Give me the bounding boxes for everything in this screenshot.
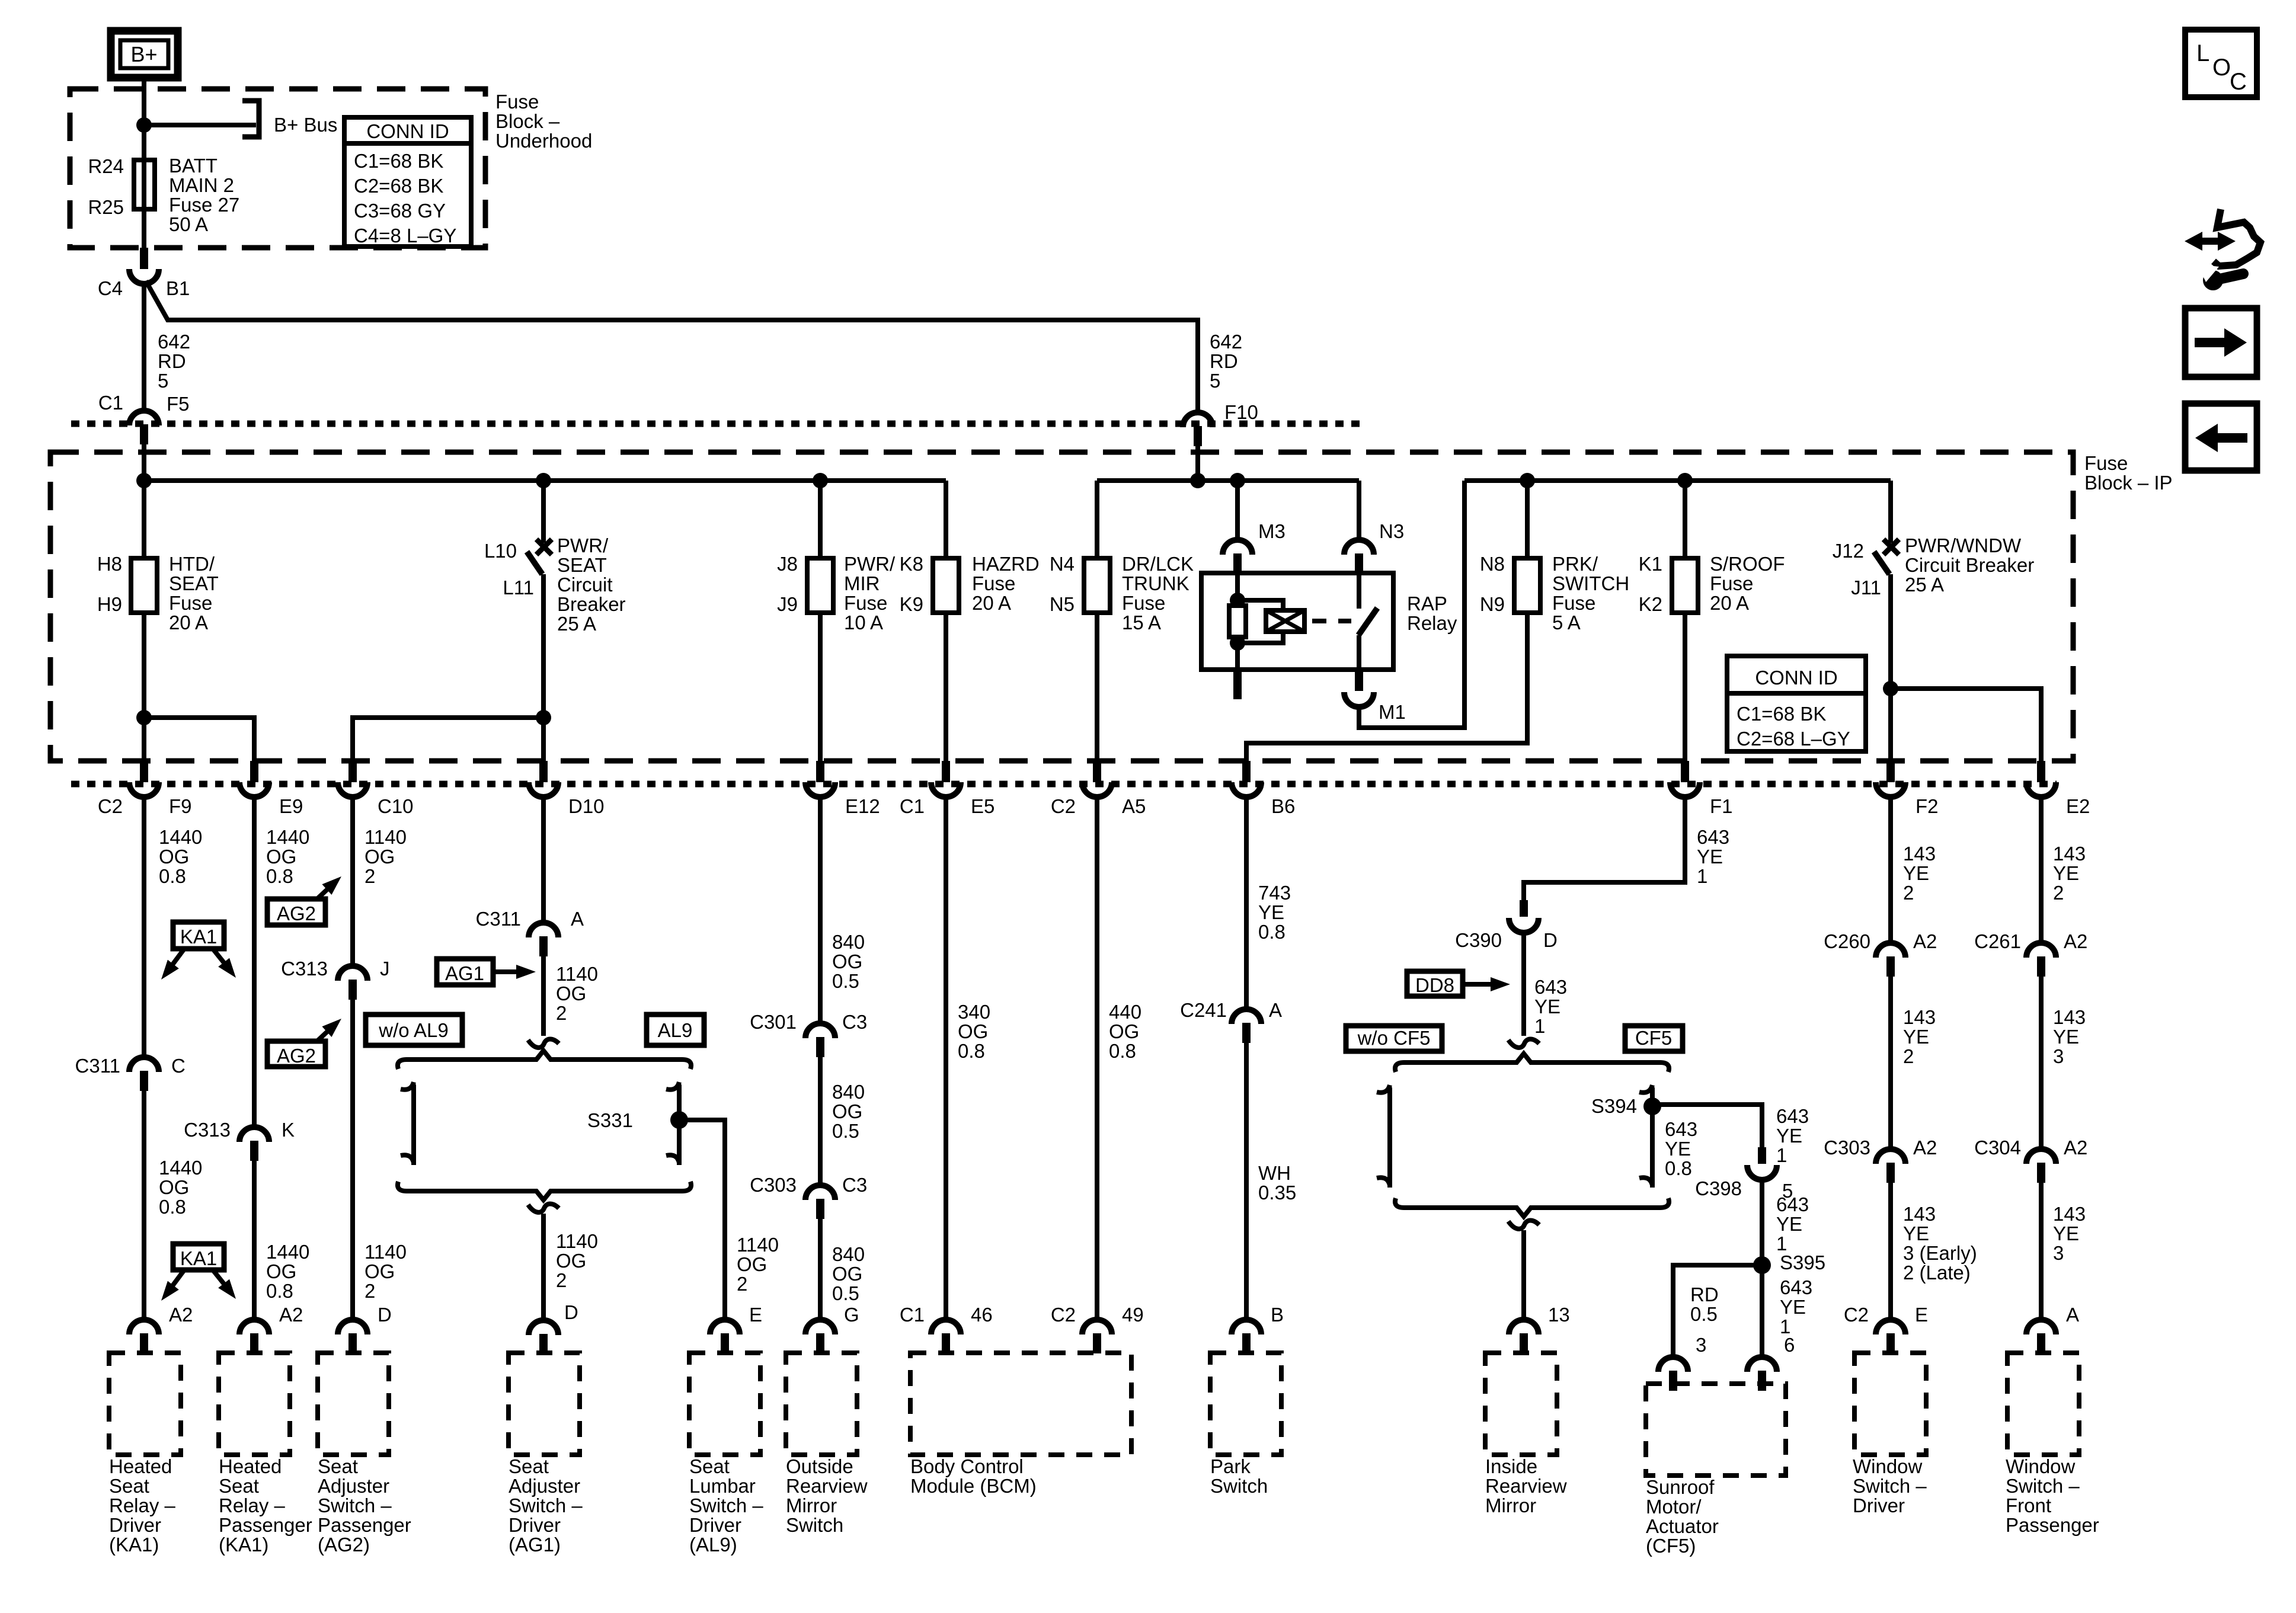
connector C398 inline — [1758, 1147, 1766, 1164]
wire 642 RD 5 branch to F10 — [146, 281, 1198, 412]
svg-text:2: 2 — [1903, 1045, 1914, 1067]
svg-text:643: 643 — [1665, 1118, 1697, 1140]
svg-text:5 A: 5 A — [1552, 612, 1581, 633]
svg-text:Lumbar: Lumbar — [689, 1475, 756, 1497]
wire N4 drop — [1095, 481, 1099, 558]
wire 643 YE 1 to option split — [1521, 934, 1526, 1036]
wire 840 OG 0.5 middle — [818, 1057, 823, 1185]
option branch w/o CF5 — [1377, 1085, 1390, 1093]
wire 1440 OG 0.8 heated seat passenger — [252, 797, 257, 1127]
svg-text:0.8: 0.8 — [159, 1196, 186, 1218]
svg-text:OG: OG — [159, 846, 189, 868]
power symbol B+ — [111, 31, 178, 78]
RAP relay box — [1201, 573, 1393, 670]
svg-text:643: 643 — [1534, 976, 1567, 998]
node bus N8 — [1520, 473, 1535, 488]
svg-text:YE: YE — [1534, 996, 1560, 1017]
wire 1440 OG 0.8 heated seat driver — [142, 797, 146, 1057]
option tag DD8 with arrow — [1407, 971, 1463, 996]
svg-text:Adjuster: Adjuster — [509, 1475, 580, 1497]
relay coil winding symbol — [1237, 600, 1283, 610]
svg-text:143: 143 — [1903, 1203, 1936, 1225]
wire K2 to exit F1 — [1683, 613, 1687, 761]
connector N3 relay switch input — [1344, 540, 1374, 555]
connector exit C10 — [348, 761, 357, 782]
connector C390/D inline — [1520, 900, 1528, 917]
svg-text:C313: C313 — [281, 958, 328, 980]
svg-text:643: 643 — [1780, 1276, 1812, 1298]
svg-text:A2: A2 — [169, 1304, 193, 1326]
svg-text:OG: OG — [364, 846, 395, 868]
wire 440 OG 0.8 to BCM 49 — [1095, 797, 1099, 1320]
svg-text:OG: OG — [266, 846, 296, 868]
wire N3 drop — [1357, 481, 1361, 540]
svg-text:Driver: Driver — [689, 1514, 741, 1536]
svg-text:3: 3 — [1696, 1334, 1706, 1356]
svg-text:OG: OG — [266, 1260, 296, 1282]
svg-text:2: 2 — [1903, 882, 1914, 904]
svg-text:1440: 1440 — [159, 1157, 202, 1179]
svg-text:MAIN 2: MAIN 2 — [169, 174, 234, 196]
bus segment middle — [1097, 478, 1359, 483]
svg-text:C261: C261 — [1974, 930, 2021, 952]
component box inside rearview mirror — [1485, 1353, 1557, 1455]
svg-text:C1=68 BK: C1=68 BK — [1737, 703, 1826, 725]
svg-text:B6: B6 — [1271, 795, 1295, 817]
wire 643 YE 1 to sunroof 6 — [1760, 1265, 1764, 1357]
svg-text:Front: Front — [2006, 1494, 2051, 1516]
connector C313/J inline — [338, 966, 367, 981]
connector E seat lumbar switch — [710, 1320, 740, 1334]
svg-text:840: 840 — [832, 1243, 865, 1265]
svg-text:C311: C311 — [476, 908, 521, 930]
svg-text:A: A — [571, 908, 584, 930]
wire 840 OG 0.5 upper — [818, 797, 823, 1023]
fuse J8/J9 PWR/MIR 10A — [807, 558, 833, 613]
svg-text:Heated: Heated — [109, 1455, 172, 1477]
connector M3 relay coil — [1223, 540, 1252, 555]
svg-text:Block – IP: Block – IP — [2084, 472, 2173, 494]
svg-text:YE: YE — [1776, 1125, 1802, 1147]
svg-text:D: D — [378, 1304, 392, 1326]
svg-text:R24: R24 — [88, 155, 124, 177]
svg-text:1440: 1440 — [266, 1241, 309, 1263]
wire S394 to C398 — [1652, 1105, 1762, 1147]
svg-text:F10: F10 — [1224, 401, 1258, 423]
wire S331 to seat lumbar switch — [679, 1120, 725, 1320]
svg-text:F5: F5 — [167, 393, 190, 415]
svg-text:13: 13 — [1548, 1304, 1570, 1326]
svg-text:E2: E2 — [2066, 795, 2090, 817]
svg-text:C: C — [171, 1055, 186, 1077]
connector E window switch driver — [1876, 1320, 1905, 1334]
option tag AG1 with arrow — [437, 959, 493, 985]
svg-text:643: 643 — [1697, 826, 1729, 848]
svg-text:Mirror: Mirror — [1485, 1494, 1536, 1516]
wire 143 YE 3 window passenger middle — [2039, 977, 2044, 1149]
connector exit F9 — [140, 761, 148, 782]
fuse N4/N5 DR/LCK TRUNK 15A — [1084, 558, 1110, 613]
fuse H8/H9 HTD/SEAT 20A — [131, 558, 157, 613]
connector 3 sunroof motor — [1658, 1357, 1688, 1372]
svg-text:E: E — [1915, 1304, 1928, 1326]
svg-text:Block –: Block – — [495, 110, 560, 132]
svg-text:G: G — [844, 1304, 859, 1326]
svg-text:Switch –: Switch – — [1853, 1475, 1927, 1497]
svg-text:YE: YE — [1780, 1296, 1806, 1318]
component box seat adjuster switch passenger — [318, 1353, 389, 1455]
svg-text:Passenger: Passenger — [318, 1514, 411, 1536]
svg-text:143: 143 — [2053, 843, 2086, 865]
connector C313/K inline — [239, 1127, 269, 1142]
svg-text:2 (Late): 2 (Late) — [1903, 1262, 1971, 1284]
svg-text:1: 1 — [1534, 1015, 1545, 1037]
svg-text:Seat: Seat — [689, 1455, 730, 1477]
connector row C1 top dotted line — [71, 421, 1363, 427]
svg-text:143: 143 — [2053, 1203, 2086, 1225]
wire RD 0.5 to sunroof 3 — [1673, 1265, 1762, 1357]
svg-text:Underhood: Underhood — [495, 130, 592, 152]
component box body control module — [910, 1353, 1131, 1455]
svg-text:RD: RD — [1690, 1284, 1719, 1305]
wire 143 YE 2 window passenger upper — [2039, 797, 2044, 943]
svg-text:RAP: RAP — [1407, 593, 1447, 615]
connector exit E2 — [2037, 761, 2045, 782]
svg-text:S395: S395 — [1780, 1252, 1825, 1273]
svg-text:3: 3 — [2053, 1242, 2064, 1264]
wire L11 to exits C10/D10 — [541, 574, 546, 761]
svg-text:A2: A2 — [2064, 1137, 2087, 1158]
svg-text:5: 5 — [158, 370, 168, 392]
svg-text:SWITCH: SWITCH — [1552, 572, 1629, 594]
connector C303/C3 inline — [805, 1185, 835, 1200]
node bus K1 — [1677, 473, 1693, 488]
svg-text:OG: OG — [1109, 1020, 1139, 1042]
wire 1140 OG 2 seat adjuster driver upper — [541, 797, 546, 923]
svg-text:0.8: 0.8 — [958, 1040, 985, 1062]
fuse K1/K2 S/ROOF 20A — [1672, 558, 1698, 613]
component box sunroof motor actuator — [1646, 1384, 1786, 1476]
option tag KA1 lower with arrows — [173, 1244, 224, 1270]
svg-text:C398: C398 — [1695, 1177, 1742, 1199]
connector 13 inside rearview mirror — [1509, 1320, 1539, 1334]
svg-text:O: O — [2212, 55, 2231, 81]
B+ bus bar symbol — [242, 101, 259, 137]
wire 143 YE 3 window passenger lower — [2039, 1183, 2044, 1320]
svg-text:CONN ID: CONN ID — [366, 120, 449, 142]
svg-text:143: 143 — [2053, 1006, 2086, 1028]
svg-text:C2: C2 — [1051, 1304, 1076, 1326]
wire J9 to exit E12 — [818, 613, 823, 761]
wire K1 drop — [1683, 481, 1687, 558]
connector A2 heated seat relay passenger — [239, 1320, 269, 1334]
svg-text:143: 143 — [1903, 1006, 1936, 1028]
svg-text:0.5: 0.5 — [1690, 1303, 1718, 1325]
svg-text:YE: YE — [1665, 1138, 1691, 1160]
svg-text:Seat: Seat — [509, 1455, 549, 1477]
wire 143 YE window driver lower — [1888, 1183, 1893, 1320]
svg-text:15 A: 15 A — [1122, 612, 1161, 633]
svg-text:C311: C311 — [75, 1055, 120, 1077]
svg-text:Fuse: Fuse — [1710, 572, 1753, 594]
svg-text:25 A: 25 A — [1905, 574, 1944, 596]
wire 1440 OG 0.8 lower passenger — [252, 1161, 257, 1320]
svg-text:SEAT: SEAT — [169, 572, 219, 594]
wire to inside rearview mirror — [1521, 1230, 1526, 1320]
svg-text:PWR/WNDW: PWR/WNDW — [1905, 535, 2022, 556]
svg-text:PRK/: PRK/ — [1552, 553, 1598, 575]
relay mechanical link dashes — [1312, 619, 1351, 623]
svg-text:743: 743 — [1258, 882, 1291, 904]
wire to exit E2 — [1891, 689, 2041, 761]
svg-text:Outside: Outside — [786, 1455, 853, 1477]
svg-text:10 A: 10 A — [844, 612, 883, 633]
wire M3 drop — [1235, 481, 1240, 540]
connector exit E12 — [816, 761, 824, 782]
svg-text:YE: YE — [1258, 901, 1284, 923]
svg-text:Window: Window — [1853, 1455, 1923, 1477]
svg-text:Relay –: Relay – — [219, 1494, 286, 1516]
relay switch blade — [1357, 573, 1361, 609]
svg-text:C1: C1 — [900, 795, 925, 817]
svg-text:E12: E12 — [845, 795, 880, 817]
svg-text:F1: F1 — [1710, 795, 1733, 817]
option split brace bottom AL9 — [398, 1182, 691, 1200]
connector exit F1 — [1681, 761, 1689, 782]
svg-text:C3=68 GY: C3=68 GY — [354, 200, 446, 222]
svg-text:1: 1 — [1776, 1144, 1787, 1166]
svg-text:A2: A2 — [279, 1304, 303, 1326]
svg-text:0.8: 0.8 — [1665, 1157, 1692, 1179]
svg-text:HTD/: HTD/ — [169, 553, 215, 575]
connector 6 sunroof motor — [1747, 1357, 1777, 1372]
component box park switch — [1210, 1353, 1281, 1455]
connector exit F2 — [1886, 761, 1895, 782]
svg-text:C4=8 L–GY: C4=8 L–GY — [354, 225, 456, 247]
node L11 split — [536, 710, 551, 725]
connector C303/A2 inline window — [1876, 1149, 1905, 1164]
svg-text:Park: Park — [1210, 1455, 1251, 1477]
option branch w/o AL9 — [401, 1082, 414, 1090]
svg-text:1140: 1140 — [556, 1230, 598, 1252]
svg-text:A2: A2 — [1913, 1137, 1937, 1158]
svg-text:Circuit: Circuit — [557, 574, 613, 596]
svg-text:(AG1): (AG1) — [509, 1534, 561, 1556]
connector exit E9 — [250, 761, 258, 782]
connector F10 — [1183, 412, 1213, 427]
svg-text:RD: RD — [1210, 350, 1238, 372]
svg-text:S/ROOF: S/ROOF — [1710, 553, 1785, 575]
svg-text:20 A: 20 A — [1710, 592, 1749, 614]
svg-text:PWR/: PWR/ — [557, 535, 609, 556]
svg-text:Sunroof: Sunroof — [1646, 1476, 1715, 1498]
svg-text:PWR/: PWR/ — [844, 553, 896, 575]
svg-text:K8: K8 — [900, 553, 923, 575]
option tag AG2 upper with arrow — [267, 899, 325, 925]
svg-text:Seat: Seat — [109, 1475, 149, 1497]
wire 1140 OG 2 to seat adjuster driver — [541, 1214, 546, 1320]
connector B park switch — [1232, 1320, 1261, 1334]
splice S395 — [1753, 1256, 1771, 1274]
connector 49 BCM C2 — [1082, 1320, 1112, 1334]
svg-text:0.8: 0.8 — [266, 1280, 293, 1302]
svg-text:OG: OG — [832, 950, 862, 972]
connector exit D10 — [539, 761, 548, 782]
svg-text:A: A — [2066, 1304, 2079, 1326]
svg-text:D: D — [1543, 929, 1558, 951]
node B+ bus tap — [136, 117, 152, 133]
svg-text:5: 5 — [1210, 370, 1220, 392]
svg-text:1440: 1440 — [159, 826, 202, 848]
svg-text:0.35: 0.35 — [1258, 1182, 1296, 1204]
component box heated seat relay passenger — [219, 1353, 290, 1455]
svg-text:Seat: Seat — [318, 1455, 358, 1477]
svg-text:1440: 1440 — [266, 826, 309, 848]
related information icon — [2194, 238, 2226, 245]
connector D seat adjuster passenger — [338, 1320, 367, 1334]
component box seat adjuster switch driver — [509, 1353, 580, 1455]
wire 1140 OG 2 lower passenger — [350, 1000, 355, 1320]
svg-text:643: 643 — [1776, 1193, 1809, 1215]
svg-text:2: 2 — [2053, 882, 2064, 904]
svg-text:Fuse: Fuse — [1122, 592, 1165, 614]
component box heated seat relay driver — [109, 1353, 181, 1455]
wire break above CF5 split — [1508, 1039, 1539, 1048]
option tag w/o AL9 — [366, 1014, 462, 1045]
svg-text:Window: Window — [2006, 1455, 2076, 1477]
svg-text:Switch: Switch — [1210, 1475, 1268, 1497]
wire 340 OG 0.8 to BCM 46 — [944, 797, 948, 1320]
option branch AL9 with splice — [666, 1082, 679, 1090]
svg-text:B: B — [1271, 1304, 1284, 1326]
node bus H8 — [136, 473, 152, 488]
svg-text:CF5: CF5 — [1635, 1027, 1672, 1049]
svg-text:Mirror: Mirror — [786, 1494, 837, 1516]
svg-text:Rearview: Rearview — [786, 1475, 868, 1497]
svg-text:OG: OG — [159, 1176, 189, 1198]
svg-text:0.8: 0.8 — [266, 865, 293, 887]
svg-text:2: 2 — [364, 865, 375, 887]
svg-text:(CF5): (CF5) — [1646, 1535, 1696, 1557]
svg-text:DD8: DD8 — [1415, 974, 1454, 996]
svg-text:F2: F2 — [1916, 795, 1939, 817]
svg-text:840: 840 — [832, 1081, 865, 1103]
node bus M3 — [1230, 473, 1245, 488]
svg-text:S394: S394 — [1591, 1095, 1637, 1117]
previous page arrow box — [2185, 404, 2257, 471]
wire B+ bus tap — [144, 123, 256, 127]
svg-text:K9: K9 — [900, 593, 923, 615]
svg-text:R25: R25 — [88, 196, 124, 218]
svg-text:Circuit Breaker: Circuit Breaker — [1905, 554, 2034, 576]
wire 1440 OG 0.8 lower — [142, 1091, 146, 1320]
svg-text:D10: D10 — [568, 795, 605, 817]
svg-text:C390: C390 — [1455, 929, 1502, 951]
svg-text:J: J — [380, 958, 390, 980]
svg-text:642: 642 — [158, 331, 190, 353]
svg-text:C3: C3 — [842, 1174, 867, 1196]
option tag CF5 — [1625, 1026, 1683, 1051]
svg-text:Module (BCM): Module (BCM) — [910, 1475, 1037, 1497]
connector C304/A2 inline — [2026, 1149, 2056, 1164]
option split brace bottom CF5 — [1395, 1198, 1669, 1217]
svg-text:OG: OG — [556, 982, 586, 1004]
node J11 split — [1883, 681, 1898, 696]
wire N5 to exit A5 — [1095, 613, 1099, 761]
svg-text:B+: B+ — [130, 42, 157, 66]
svg-text:1: 1 — [1697, 865, 1707, 887]
svg-text:Passenger: Passenger — [2006, 1514, 2099, 1536]
svg-text:Heated: Heated — [219, 1455, 282, 1477]
option branch CF5 with splice — [1639, 1085, 1652, 1093]
svg-text:OG: OG — [364, 1260, 395, 1282]
svg-text:H9: H9 — [97, 593, 122, 615]
svg-text:C1=68 BK: C1=68 BK — [354, 150, 443, 172]
svg-text:K2: K2 — [1639, 593, 1662, 615]
wire M1 to right bus — [1359, 481, 1464, 728]
svg-text:2: 2 — [737, 1273, 747, 1295]
svg-text:K1: K1 — [1639, 553, 1662, 575]
wire 143 YE 2 window driver middle — [1888, 977, 1893, 1149]
svg-text:E5: E5 — [971, 795, 994, 817]
svg-text:KA1: KA1 — [180, 1247, 217, 1269]
svg-text:YE: YE — [2053, 1222, 2079, 1244]
svg-text:Relay: Relay — [1407, 612, 1457, 634]
wire L10 drop — [541, 481, 546, 543]
svg-text:Fuse: Fuse — [495, 91, 539, 113]
svg-text:N4: N4 — [1050, 553, 1075, 575]
connector D seat adjuster driver — [529, 1320, 558, 1335]
svg-text:Switch: Switch — [786, 1514, 843, 1536]
connector A2 heated seat relay driver — [129, 1320, 159, 1334]
svg-text:YE: YE — [1903, 1222, 1929, 1244]
relay coil resistor — [1235, 573, 1240, 606]
svg-text:AL9: AL9 — [658, 1019, 693, 1041]
wire J12 drop — [1888, 481, 1893, 543]
svg-text:C241: C241 — [1180, 999, 1227, 1021]
option tag KA1 upper with arrows — [173, 922, 224, 949]
wire 1140 OG 2 to option split — [541, 956, 546, 1036]
fuse block underhood dashed outline — [70, 89, 485, 248]
svg-text:C3: C3 — [842, 1011, 867, 1033]
svg-text:B+ Bus: B+ Bus — [274, 114, 337, 136]
wire break above AL9 split — [528, 1039, 559, 1048]
svg-text:E: E — [749, 1304, 762, 1326]
svg-text:(KA1): (KA1) — [219, 1534, 268, 1556]
svg-text:0.8: 0.8 — [1258, 921, 1285, 943]
node bus L10 — [536, 473, 551, 488]
svg-text:OG: OG — [556, 1250, 586, 1272]
svg-text:Switch –: Switch – — [318, 1494, 392, 1516]
svg-text:KA1: KA1 — [180, 926, 217, 948]
svg-text:Rearview: Rearview — [1485, 1475, 1567, 1497]
option tag w/o CF5 — [1346, 1026, 1442, 1051]
wire H9 to exits F9/E9 — [142, 613, 146, 761]
svg-text:Switch –: Switch – — [689, 1494, 763, 1516]
wire break below AL9 split — [528, 1204, 559, 1212]
svg-text:Fuse: Fuse — [1552, 592, 1595, 614]
svg-text:C313: C313 — [184, 1119, 231, 1141]
svg-text:N8: N8 — [1480, 553, 1505, 575]
circuit breaker L10/L11 PWR/SEAT 25A — [536, 539, 552, 555]
wire 143 YE 2 window driver upper — [1888, 797, 1893, 943]
svg-text:OG: OG — [832, 1100, 862, 1122]
svg-text:B1: B1 — [166, 277, 190, 299]
svg-text:MIR: MIR — [844, 572, 880, 594]
svg-text:46: 46 — [971, 1304, 993, 1326]
connector C260/A2 inline — [1876, 943, 1905, 958]
svg-text:20 A: 20 A — [169, 612, 208, 633]
